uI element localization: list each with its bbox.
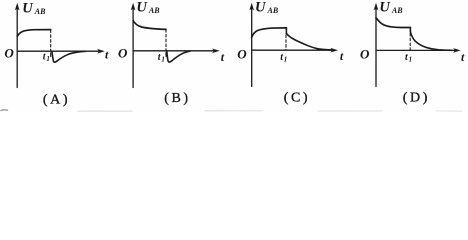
x-axis C xyxy=(252,49,332,51)
svg-text:t: t xyxy=(221,50,225,64)
y-axis B xyxy=(132,8,134,88)
curve B negative spike xyxy=(167,51,190,62)
x-axis arrowhead A xyxy=(97,49,105,54)
faint scan streak bottom 2 xyxy=(205,110,262,112)
tick below axis t1 B xyxy=(165,52,167,56)
faint scan streak bottom 4 xyxy=(436,110,462,112)
svg-text:AB: AB xyxy=(34,7,46,16)
y-axis arrowhead A xyxy=(15,3,20,11)
svg-text:(A): (A) xyxy=(43,93,70,108)
svg-text:AB: AB xyxy=(391,6,403,15)
curve D decay after t1 xyxy=(410,32,452,51)
svg-text:O: O xyxy=(118,46,128,61)
svg-text:U: U xyxy=(136,0,148,16)
svg-text:1: 1 xyxy=(409,55,413,63)
svg-text:O: O xyxy=(360,46,370,61)
curve A negative spike xyxy=(52,51,86,62)
svg-text:1: 1 xyxy=(284,55,288,63)
stray scan mark bottom-left xyxy=(1,109,8,112)
curve C decay after t1 xyxy=(286,34,332,50)
curve B top (decaying) xyxy=(133,21,166,30)
y-axis arrowhead D xyxy=(374,3,379,11)
dashed line t1 B xyxy=(165,30,167,51)
x-axis arrowhead C xyxy=(330,48,338,53)
x-axis arrowhead D xyxy=(453,48,461,53)
svg-text:t: t xyxy=(340,49,344,63)
tick below axis t1 A xyxy=(50,53,52,57)
faint scan streak bottom 3 xyxy=(318,110,382,112)
svg-text:O: O xyxy=(237,46,247,61)
curve C vertical drop at t1 xyxy=(285,28,287,34)
x-axis D xyxy=(376,49,455,51)
y-axis A xyxy=(16,8,18,88)
dashed line t1 D xyxy=(409,33,411,50)
svg-text:t: t xyxy=(461,50,465,64)
y-axis arrowhead C xyxy=(249,3,254,11)
svg-text:1: 1 xyxy=(46,55,50,63)
svg-text:O: O xyxy=(4,46,14,61)
x-axis arrowhead B xyxy=(212,49,220,54)
x-axis B xyxy=(133,50,213,52)
svg-text:U: U xyxy=(22,1,34,17)
dashed line t1 A xyxy=(50,30,52,51)
curve A top (rising charge curve) xyxy=(17,30,51,37)
svg-text:AB: AB xyxy=(267,6,279,15)
faint scan streak bottom 1 xyxy=(78,110,132,112)
svg-text:(B): (B) xyxy=(164,91,190,106)
svg-text:U: U xyxy=(255,0,267,15)
y-axis D xyxy=(375,8,377,87)
svg-text:(C): (C) xyxy=(284,90,310,105)
y-axis arrowhead B xyxy=(131,3,136,11)
curve D top (decaying) xyxy=(376,18,410,28)
svg-text:U: U xyxy=(379,0,391,15)
svg-text:t: t xyxy=(105,48,109,62)
x-axis A xyxy=(17,50,98,52)
svg-text:1: 1 xyxy=(161,55,165,63)
svg-text:(D): (D) xyxy=(403,90,430,105)
curve D vertical drop at t1 xyxy=(409,27,411,31)
y-axis C xyxy=(251,8,253,87)
svg-text:AB: AB xyxy=(148,6,160,15)
dashed line t1 C xyxy=(285,35,287,50)
curve C top (rising charge curve) xyxy=(252,28,287,38)
